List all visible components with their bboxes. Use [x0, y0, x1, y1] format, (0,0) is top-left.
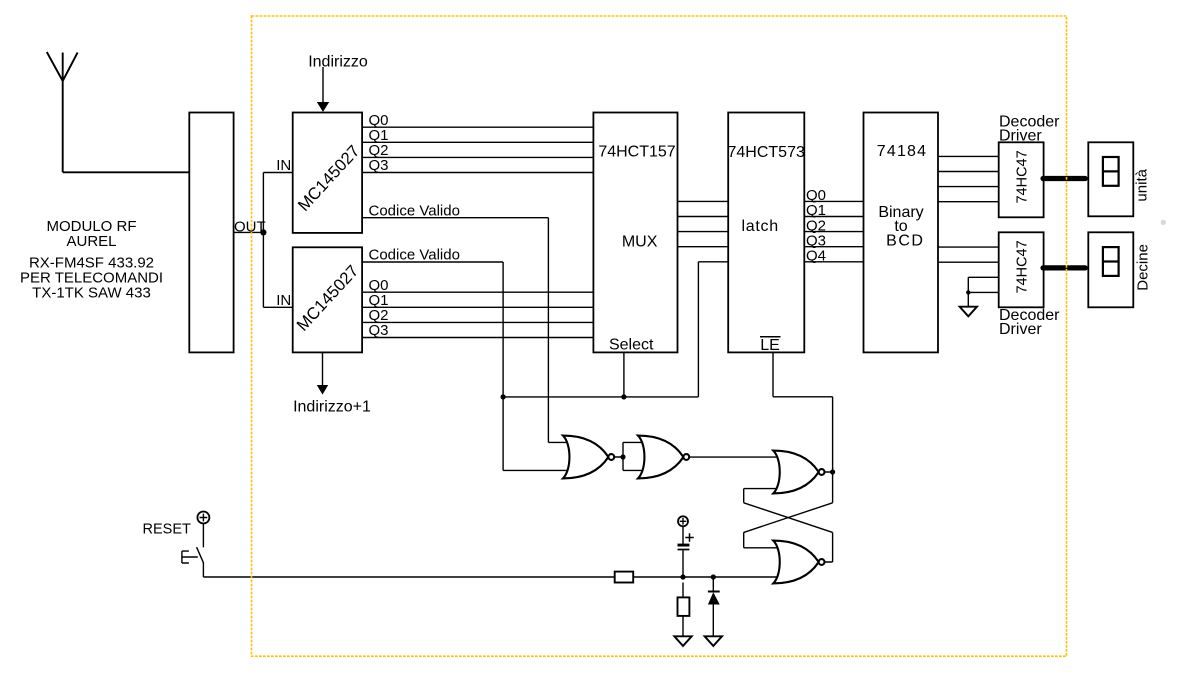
svg-text:Q4: Q4 [806, 248, 826, 265]
svg-text:RESET: RESET [143, 522, 191, 538]
svg-text:Codice Valido: Codice Valido [369, 247, 460, 264]
svg-text:LE: LE [760, 337, 780, 354]
svg-text:Q3: Q3 [369, 157, 389, 174]
svg-text:unità: unità [1133, 168, 1150, 201]
svg-text:Q3: Q3 [369, 322, 389, 339]
svg-text:Driver: Driver [999, 128, 1042, 145]
svg-text:TX-1TK SAW 433: TX-1TK SAW 433 [32, 285, 151, 302]
svg-text:OUT: OUT [234, 218, 266, 235]
svg-text:IN: IN [276, 292, 291, 309]
svg-text:74HC47: 74HC47 [1014, 240, 1030, 293]
svg-text:74HC47: 74HC47 [1014, 150, 1030, 203]
svg-text:BCD: BCD [886, 233, 924, 250]
svg-text:AUREL: AUREL [66, 233, 116, 250]
svg-text:74HCT157: 74HCT157 [598, 144, 675, 161]
svg-text:Indirizzo+1: Indirizzo+1 [293, 399, 371, 416]
svg-text:latch: latch [742, 218, 779, 235]
svg-text:Driver: Driver [999, 321, 1042, 338]
svg-text:Decine: Decine [1135, 244, 1152, 291]
svg-text:74184: 74184 [877, 143, 928, 160]
svg-text:74HCT573: 74HCT573 [728, 144, 805, 161]
svg-text:IN: IN [276, 157, 291, 174]
svg-text:Select: Select [609, 337, 654, 354]
svg-text:MUX: MUX [622, 233, 658, 250]
svg-text:Codice Valido: Codice Valido [369, 202, 460, 219]
svg-text:Indirizzo: Indirizzo [308, 54, 368, 71]
